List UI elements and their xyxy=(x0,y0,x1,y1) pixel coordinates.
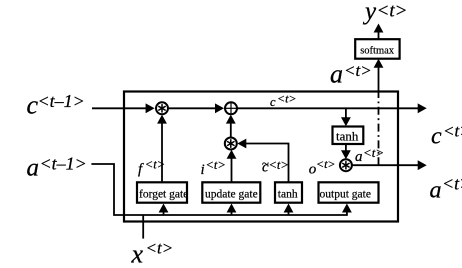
svg-text:a: a xyxy=(27,155,40,182)
wire update gate to multiply(mid) xyxy=(227,150,237,183)
svg-text:<t>: <t> xyxy=(206,158,226,172)
label x^<t> xyxy=(131,239,174,268)
update gate box xyxy=(202,182,260,202)
svg-text:<t>: <t> xyxy=(277,92,297,106)
label c-tilde^<t> xyxy=(262,155,289,175)
LSTM cell outer box xyxy=(124,92,398,222)
label a^<t-1> xyxy=(27,154,87,182)
tanh box (upper) xyxy=(333,127,364,145)
wire branch into forget gate xyxy=(159,204,169,216)
svg-text:i: i xyxy=(201,162,205,178)
wire a recurrent dash-dot xyxy=(378,93,380,166)
wire branch into tanh xyxy=(284,204,294,216)
wire tanh to multiply xyxy=(341,144,351,159)
svg-text:<t>: <t> xyxy=(145,158,165,172)
svg-text:c: c xyxy=(270,95,276,109)
wire multiply(mid) to add xyxy=(226,115,236,138)
wire a output xyxy=(352,160,427,170)
svg-text:<t>: <t> xyxy=(377,0,408,21)
svg-text:<t>: <t> xyxy=(344,61,372,80)
tanh box (lower) xyxy=(275,182,302,202)
softmax box xyxy=(355,39,399,59)
wire c input xyxy=(92,103,155,113)
wire a path into output gate xyxy=(342,204,352,213)
svg-text:<t>: <t> xyxy=(443,122,462,141)
wire branch into update gate xyxy=(227,204,237,216)
wire a input path xyxy=(91,164,347,215)
svg-text:update gate: update gate xyxy=(205,188,258,200)
svg-text:<t>: <t> xyxy=(316,157,336,171)
svg-text:forget gate: forget gate xyxy=(139,188,188,200)
forget gate box xyxy=(137,182,188,202)
multiply node (forget) xyxy=(156,102,168,114)
svg-text:<t–1>: <t–1> xyxy=(40,154,87,174)
svg-text:x: x xyxy=(131,240,144,268)
label a^<t> (on wire) xyxy=(355,145,384,165)
label y^<t> xyxy=(362,0,407,25)
label a^<t> (right output) xyxy=(430,174,462,204)
label f^<t> xyxy=(138,158,165,178)
wire x input xyxy=(142,215,144,239)
svg-text:softmax: softmax xyxy=(360,45,395,56)
multiply node (output) xyxy=(340,159,352,171)
label a^<t> (above box) xyxy=(330,60,372,89)
svg-text:tanh: tanh xyxy=(336,129,359,144)
wire multiply to plus xyxy=(169,103,225,113)
svg-text:<t>: <t> xyxy=(442,174,462,194)
label c^<t> (on wire) xyxy=(270,92,297,110)
svg-text:y: y xyxy=(362,0,377,25)
svg-text:a: a xyxy=(430,178,442,204)
multiply node (update) xyxy=(225,138,237,150)
add node xyxy=(225,102,237,114)
label o^<t> xyxy=(309,157,336,178)
svg-text:<t–1>: <t–1> xyxy=(38,91,85,111)
wire forget gate to multiply xyxy=(157,115,167,183)
svg-text:a: a xyxy=(355,149,363,165)
output gate box xyxy=(319,182,379,202)
label i^<t> xyxy=(201,158,226,178)
wire a to softmax xyxy=(374,59,384,93)
svg-text:output gate: output gate xyxy=(320,188,371,200)
svg-text:<t>: <t> xyxy=(363,145,384,160)
label c^<t> (right output) xyxy=(431,122,462,150)
svg-text:tanh: tanh xyxy=(278,188,298,200)
svg-text:a: a xyxy=(330,60,343,89)
wire softmax to y xyxy=(374,24,384,40)
wire branch down to tanh xyxy=(341,108,351,126)
wire c output xyxy=(237,103,427,113)
svg-text:<t>: <t> xyxy=(146,239,174,258)
label c^<t-1> xyxy=(27,91,85,120)
svg-text:c: c xyxy=(431,124,442,150)
svg-text:<t>: <t> xyxy=(269,158,289,172)
wire candidate to multiply(mid) xyxy=(237,139,288,183)
